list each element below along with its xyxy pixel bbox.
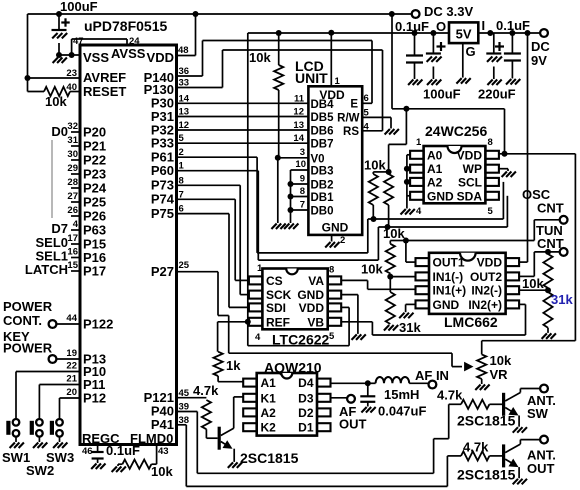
svg-text:44: 44 <box>66 313 77 324</box>
svg-text:8: 8 <box>300 186 305 197</box>
svg-text:P75: P75 <box>151 206 174 221</box>
svg-text:24WC256: 24WC256 <box>425 123 487 139</box>
svg-text:15mH: 15mH <box>384 387 419 402</box>
svg-text:14: 14 <box>293 133 304 144</box>
svg-text:uPD78F0515: uPD78F0515 <box>84 18 167 34</box>
svg-text:WP: WP <box>463 162 482 176</box>
svg-text:100uF: 100uF <box>60 0 98 14</box>
svg-text:CS: CS <box>266 274 283 288</box>
svg-text:31k: 31k <box>399 320 421 335</box>
svg-text:VR: VR <box>490 367 509 382</box>
svg-text:P60: P60 <box>151 163 174 178</box>
svg-text:DB3: DB3 <box>311 166 334 178</box>
svg-text:11: 11 <box>294 93 305 104</box>
svg-text:SCL: SCL <box>458 175 482 189</box>
svg-text:9V: 9V <box>531 53 547 68</box>
svg-text:VSS: VSS <box>83 50 109 65</box>
svg-text:31k: 31k <box>551 292 573 307</box>
svg-text:10k: 10k <box>364 158 386 173</box>
svg-text:1: 1 <box>335 76 341 87</box>
svg-text:P73: P73 <box>151 178 174 193</box>
svg-text:5: 5 <box>488 206 494 217</box>
svg-text:DB2: DB2 <box>311 180 334 192</box>
svg-text:9: 9 <box>300 174 305 185</box>
svg-text:D0: D0 <box>51 124 68 139</box>
svg-text:8: 8 <box>488 137 493 148</box>
svg-text:D1: D1 <box>298 421 314 435</box>
svg-text:29: 29 <box>67 163 78 174</box>
svg-text:4: 4 <box>73 219 79 230</box>
svg-text:GND: GND <box>322 221 349 235</box>
svg-text:G: G <box>466 44 476 59</box>
svg-text:P122: P122 <box>83 317 113 332</box>
svg-text:I: I <box>482 18 486 33</box>
svg-text:DC: DC <box>531 39 550 54</box>
svg-text:K1: K1 <box>261 391 277 405</box>
svg-text:12: 12 <box>293 107 304 118</box>
svg-text:A2: A2 <box>427 175 443 189</box>
svg-text:AVSS: AVSS <box>111 46 146 61</box>
svg-text:2SC1815: 2SC1815 <box>457 413 516 429</box>
svg-text:LATCH: LATCH <box>25 262 68 277</box>
svg-text:P41: P41 <box>151 417 174 432</box>
svg-text:4.7k: 4.7k <box>463 440 489 455</box>
svg-text:D4: D4 <box>298 376 314 390</box>
svg-text:10k: 10k <box>45 94 67 109</box>
svg-text:13: 13 <box>293 120 304 131</box>
svg-text:P17: P17 <box>83 264 106 279</box>
svg-text:21: 21 <box>66 374 77 385</box>
svg-text:DB5: DB5 <box>311 112 335 124</box>
svg-text:10k: 10k <box>522 276 544 291</box>
svg-text:10: 10 <box>295 159 306 170</box>
svg-text:4: 4 <box>416 206 422 217</box>
svg-text:0.1uF: 0.1uF <box>106 443 140 458</box>
svg-text:OUT: OUT <box>339 417 367 432</box>
svg-text:RS: RS <box>343 126 359 138</box>
svg-text:31: 31 <box>67 135 78 146</box>
svg-text:SW3: SW3 <box>46 450 74 465</box>
svg-text:P33: P33 <box>151 136 174 151</box>
svg-text:P21: P21 <box>83 139 106 154</box>
svg-text:VA: VA <box>308 274 324 288</box>
svg-text:0.047uF: 0.047uF <box>378 404 426 419</box>
svg-text:A0: A0 <box>427 148 443 162</box>
svg-text:7: 7 <box>300 200 305 211</box>
svg-text:A1: A1 <box>427 162 443 176</box>
svg-text:D7: D7 <box>51 221 68 236</box>
svg-text:P22: P22 <box>83 153 106 168</box>
svg-text:K2: K2 <box>261 421 277 435</box>
svg-text:VDD: VDD <box>477 256 503 270</box>
svg-text:LTC2622: LTC2622 <box>272 332 330 348</box>
svg-text:D2: D2 <box>298 406 314 420</box>
svg-text:CNT: CNT <box>537 201 564 216</box>
svg-text:POWER: POWER <box>3 341 53 356</box>
svg-text:E: E <box>350 99 358 111</box>
svg-text:IN2(+): IN2(+) <box>468 298 502 312</box>
svg-text:CNT: CNT <box>537 236 564 251</box>
svg-text:4: 4 <box>364 122 370 133</box>
svg-text:DB6: DB6 <box>311 126 334 138</box>
svg-text:4: 4 <box>255 332 261 343</box>
svg-text:23: 23 <box>66 68 77 79</box>
svg-text:VB: VB <box>307 315 324 329</box>
svg-text:5: 5 <box>364 108 370 119</box>
svg-text:0.1uF: 0.1uF <box>496 18 530 33</box>
svg-text:SW: SW <box>527 406 549 421</box>
svg-text:1k: 1k <box>226 358 241 373</box>
svg-text:V0: V0 <box>311 153 325 165</box>
svg-text:47: 47 <box>73 36 84 47</box>
svg-text:A2: A2 <box>261 406 277 420</box>
svg-text:GND: GND <box>433 298 460 312</box>
svg-text:10k: 10k <box>151 464 173 479</box>
svg-text:16: 16 <box>67 247 78 258</box>
svg-text:P74: P74 <box>151 192 175 207</box>
svg-text:DB1: DB1 <box>311 192 335 204</box>
svg-text:OUT1: OUT1 <box>433 256 465 270</box>
svg-text:43: 43 <box>158 446 169 457</box>
svg-text:1: 1 <box>257 263 263 274</box>
svg-text:P12: P12 <box>83 391 106 406</box>
svg-text:10k: 10k <box>361 262 383 277</box>
svg-text:220uF: 220uF <box>478 87 516 102</box>
svg-text:48: 48 <box>178 45 189 56</box>
svg-text:22: 22 <box>66 361 77 372</box>
svg-text:R/W: R/W <box>337 113 360 125</box>
svg-text:32: 32 <box>67 121 78 132</box>
svg-text:P25: P25 <box>83 195 106 210</box>
svg-text:D3: D3 <box>298 391 314 405</box>
svg-text:3: 3 <box>300 147 305 158</box>
svg-text:10k: 10k <box>249 50 271 65</box>
svg-text:IN2(-): IN2(-) <box>471 284 502 298</box>
svg-text:POWER: POWER <box>3 299 53 314</box>
svg-text:AF IN: AF IN <box>415 368 449 383</box>
svg-text:46: 46 <box>82 446 93 457</box>
svg-text:O: O <box>436 19 446 34</box>
svg-text:P26: P26 <box>83 209 106 224</box>
svg-text:4.7k: 4.7k <box>437 388 463 403</box>
svg-text:A1: A1 <box>261 376 277 390</box>
svg-text:VDD: VDD <box>457 148 483 162</box>
svg-text:AVREF: AVREF <box>83 70 126 85</box>
svg-text:CONT.: CONT. <box>3 313 42 328</box>
svg-text:SDA: SDA <box>457 189 483 203</box>
svg-text:DC 3.3V: DC 3.3V <box>424 4 473 19</box>
svg-text:DB0: DB0 <box>311 206 334 218</box>
svg-text:8: 8 <box>329 265 334 276</box>
svg-text:6: 6 <box>364 93 369 104</box>
svg-text:IN1(+): IN1(+) <box>433 284 467 298</box>
svg-text:15: 15 <box>67 260 78 271</box>
svg-text:P20: P20 <box>83 125 106 140</box>
svg-text:5V: 5V <box>456 27 472 42</box>
svg-text:28: 28 <box>67 177 78 188</box>
svg-text:17: 17 <box>67 233 78 244</box>
svg-text:19: 19 <box>66 348 77 359</box>
svg-text:UNIT: UNIT <box>295 70 328 86</box>
svg-text:5: 5 <box>329 331 335 342</box>
svg-text:REF: REF <box>266 315 290 329</box>
svg-text:25: 25 <box>179 260 190 271</box>
svg-text:SDI: SDI <box>266 301 286 315</box>
svg-text:P24: P24 <box>83 181 107 196</box>
svg-text:P63: P63 <box>83 223 106 238</box>
svg-text:26: 26 <box>67 205 78 216</box>
svg-text:1: 1 <box>416 137 422 148</box>
svg-text:LMC662: LMC662 <box>444 314 498 330</box>
svg-text:SW2: SW2 <box>26 463 54 478</box>
svg-text:VDD: VDD <box>299 301 325 315</box>
svg-text:P23: P23 <box>83 167 106 182</box>
svg-text:IN1(-): IN1(-) <box>433 270 464 284</box>
svg-text:2SC1815: 2SC1815 <box>240 450 299 466</box>
svg-text:24: 24 <box>129 36 140 47</box>
svg-text:27: 27 <box>67 191 78 202</box>
svg-text:VDD: VDD <box>147 50 174 65</box>
svg-text:DB4: DB4 <box>311 99 335 111</box>
svg-text:2: 2 <box>340 235 345 246</box>
svg-text:10k: 10k <box>490 353 512 368</box>
svg-text:DB7: DB7 <box>311 139 334 151</box>
svg-text:GND: GND <box>427 189 454 203</box>
svg-text:40: 40 <box>66 82 77 93</box>
svg-text:2SC1815: 2SC1815 <box>457 467 516 483</box>
svg-text:RESET: RESET <box>83 84 126 99</box>
svg-text:20: 20 <box>66 387 77 398</box>
svg-text:10k: 10k <box>383 226 405 241</box>
svg-text:OUT: OUT <box>527 461 555 476</box>
svg-text:100uF: 100uF <box>423 87 461 102</box>
svg-text:4.7k: 4.7k <box>193 383 219 398</box>
svg-text:P27: P27 <box>151 264 174 279</box>
svg-text:OUT2: OUT2 <box>470 270 502 284</box>
svg-text:30: 30 <box>67 149 78 160</box>
